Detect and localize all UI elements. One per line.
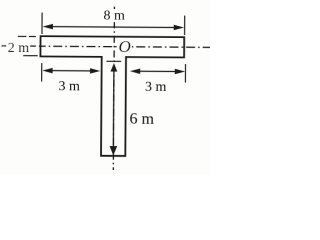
svg-text:2 m: 2 m	[8, 41, 30, 56]
svg-text:3 m: 3 m	[145, 80, 167, 95]
svg-text:8 m: 8 m	[103, 8, 125, 23]
svg-text:6 m: 6 m	[129, 111, 154, 128]
svg-text:O: O	[119, 37, 131, 56]
svg-text:3 m: 3 m	[58, 79, 80, 94]
